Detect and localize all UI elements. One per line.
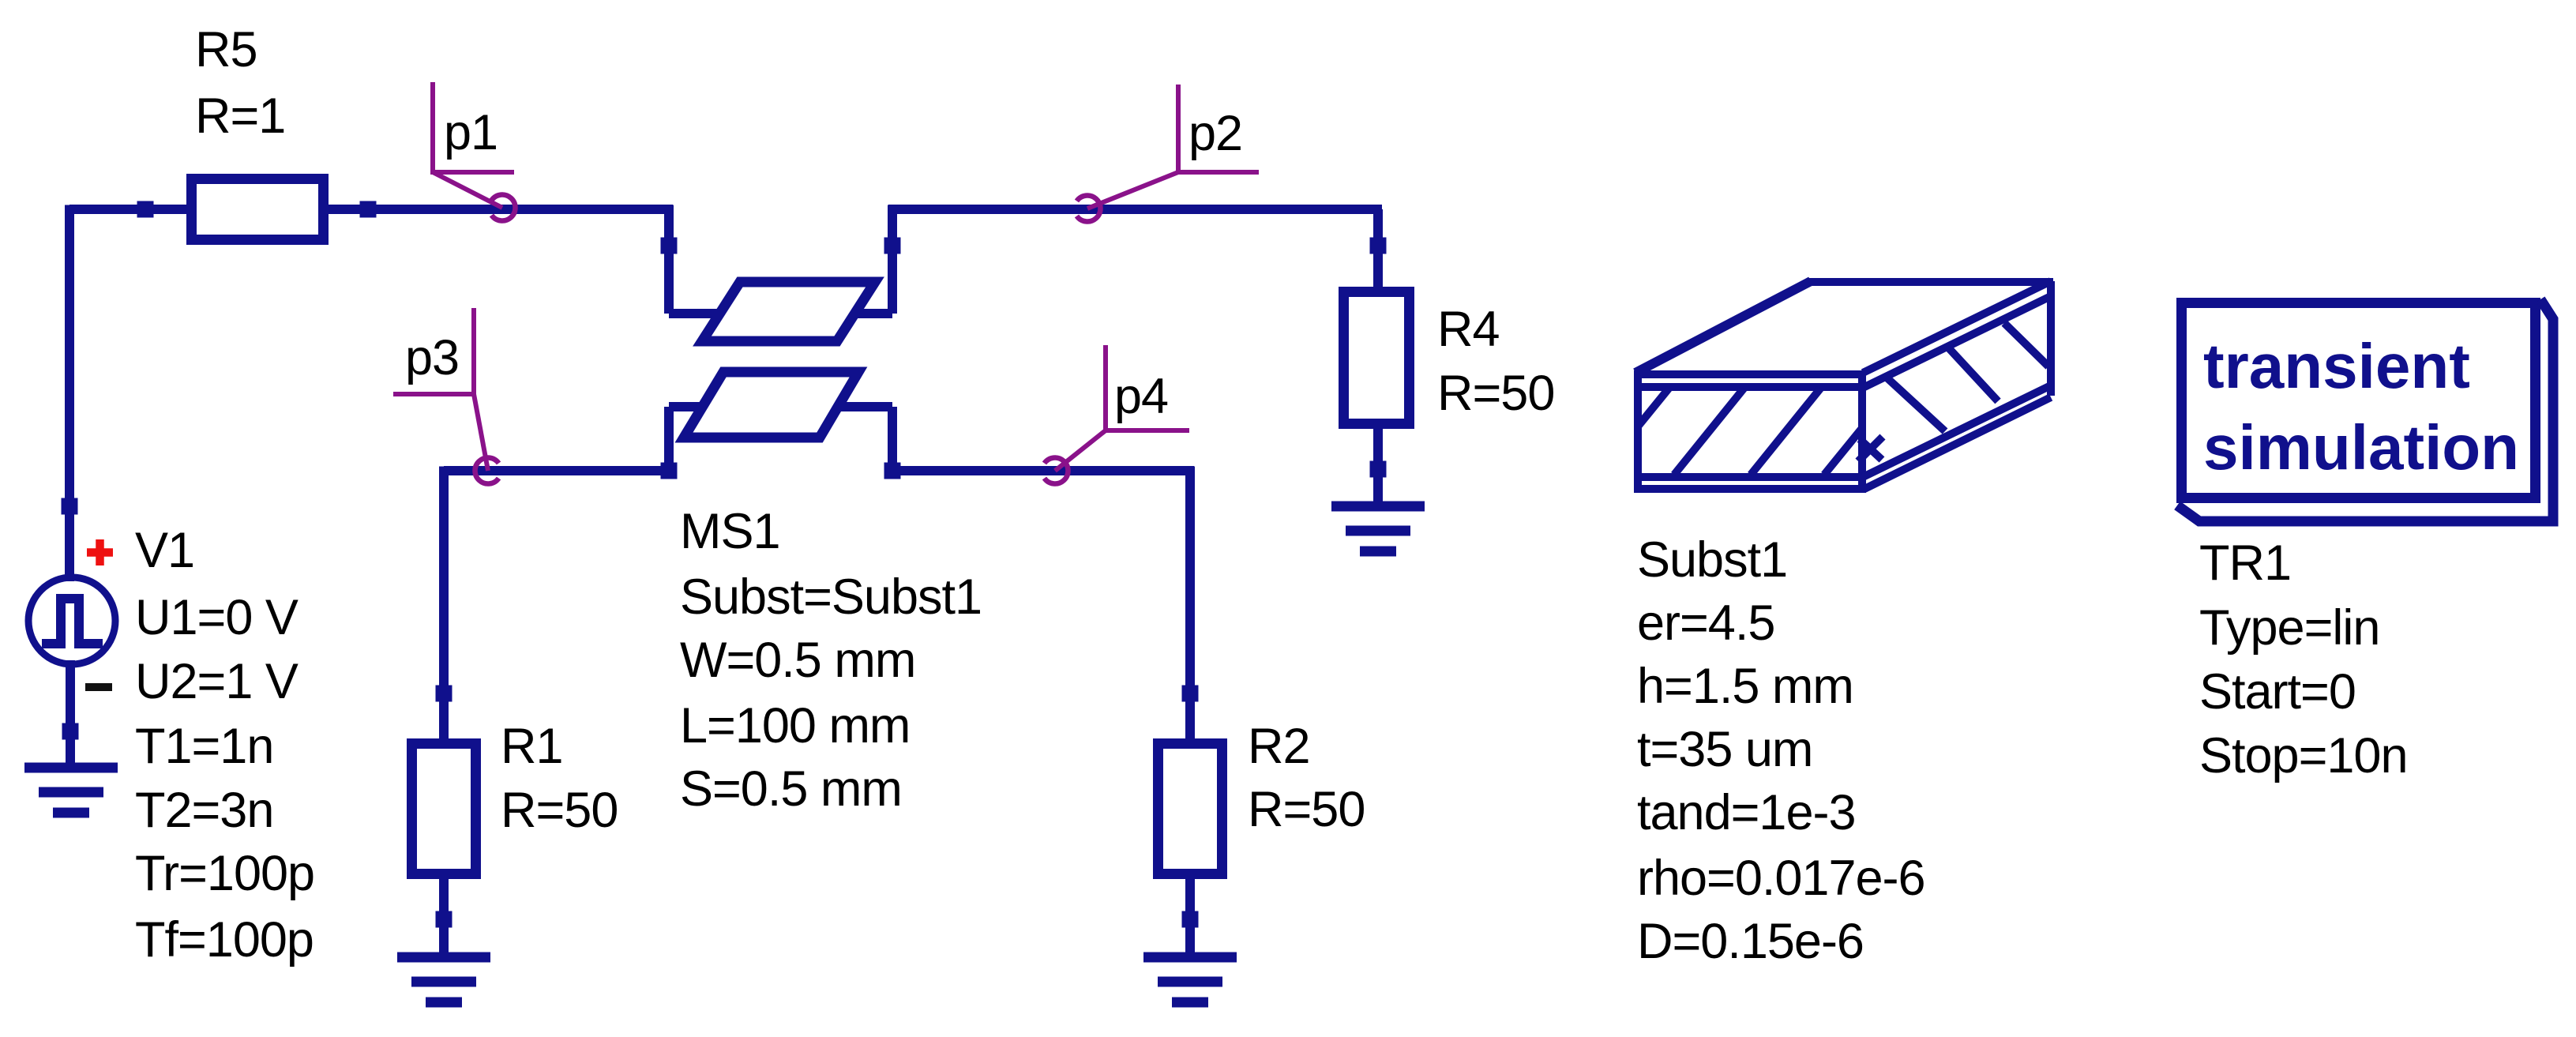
MS1 stub top-right — [854, 309, 892, 318]
node MS1 pin 4 — [884, 463, 901, 479]
svg-text:MS1: MS1 — [680, 504, 780, 559]
svg-text:W=0.5 mm: W=0.5 mm — [680, 633, 915, 688]
svg-text:p3: p3 — [405, 330, 459, 385]
svg-text:rho=0.017e-6: rho=0.017e-6 — [1637, 851, 1925, 906]
substrate left edge — [1634, 370, 1642, 493]
substrate right face top edge — [1863, 281, 2051, 373]
ground of R1 — [397, 957, 490, 1002]
svg-text:R2: R2 — [1248, 719, 1310, 774]
wire R1 bottom to ground — [439, 874, 449, 957]
node R4 pin 2 — [1370, 461, 1387, 478]
port p2 — [1076, 85, 1259, 222]
substrate Subst1 symbol — [1634, 281, 2053, 493]
svg-text:D=0.15e-6: D=0.15e-6 — [1637, 914, 1864, 969]
substrate top-left slant edge — [1635, 281, 1811, 373]
svg-text:V1: V1 — [135, 523, 194, 578]
V1 minus sign — [85, 683, 112, 691]
substrate back top edge — [1808, 278, 2053, 286]
substrate corner hatch a — [1858, 437, 1883, 461]
svg-text:L=100 mm: L=100 mm — [680, 698, 910, 753]
svg-text:R=50: R=50 — [1248, 782, 1365, 837]
port p1 — [433, 82, 515, 221]
svg-text:Tf=100p: Tf=100p — [135, 912, 314, 967]
resistor R4 — [1344, 292, 1410, 424]
transient simulation box TR1 — [2177, 299, 2553, 521]
node V1 pin - — [62, 723, 79, 740]
node R5 pin 1 — [137, 201, 154, 218]
substrate corner hatch b — [1860, 439, 1882, 460]
substrate front top copper line — [1634, 383, 1862, 391]
wire V1 top lead — [65, 506, 74, 581]
svg-text:p2: p2 — [1188, 106, 1242, 161]
svg-text:simulation: simulation — [2203, 412, 2519, 483]
wire R2 bottom to ground — [1185, 874, 1195, 957]
wire MS1 bottom-right vertical — [888, 407, 897, 471]
svg-text:Start=0: Start=0 — [2199, 664, 2356, 720]
node R4 pin 1 — [1370, 238, 1387, 254]
node R2 pin 1 — [1182, 686, 1199, 702]
substrate front bottom copper line — [1634, 473, 1862, 481]
wire MS1 bottom-left vertical — [664, 407, 674, 471]
node MS1 pin 1 — [661, 238, 678, 254]
substrate back right edge — [2047, 281, 2055, 396]
wire MS1 top-left vertical — [664, 205, 674, 314]
svg-text:tand=1e-3: tand=1e-3 — [1637, 785, 1856, 840]
node MS1 pin 3 — [661, 463, 678, 479]
svg-text:Type=lin: Type=lin — [2199, 600, 2379, 656]
svg-text:T1=1n: T1=1n — [135, 719, 273, 774]
port p4 — [1044, 345, 1189, 484]
ground of R2 — [1143, 957, 1237, 1002]
ground of V1 — [24, 768, 118, 813]
ground of R4 — [1331, 506, 1425, 551]
resistor R5 — [192, 179, 324, 240]
wire R2 vertical — [1185, 467, 1195, 745]
wire MS1 top-right vertical — [888, 205, 897, 314]
wire V1 bottom lead to ground — [66, 660, 75, 768]
node MS1 pin 2 — [884, 238, 901, 254]
svg-text:Subst1: Subst1 — [1637, 532, 1787, 588]
substrate front hatch 2 — [1674, 389, 1744, 475]
substrate front right edge — [1858, 370, 1866, 493]
substrate front top edge — [1634, 370, 1866, 378]
node R5 pin 2 — [360, 201, 377, 218]
svg-text:er=4.5: er=4.5 — [1637, 596, 1774, 651]
svg-text:TR1: TR1 — [2199, 535, 2291, 591]
svg-text:U1=0 V: U1=0 V — [135, 590, 299, 645]
svg-text:t=35 um: t=35 um — [1637, 722, 1812, 777]
wire top-left horizontal — [69, 205, 191, 214]
resistor R2 — [1158, 744, 1222, 874]
wire R1 vertical — [439, 467, 449, 745]
substrate right face copper line — [1864, 295, 2052, 387]
wire bottom left horizontal p3 to MS1 — [444, 466, 673, 475]
svg-text:R=50: R=50 — [501, 783, 618, 838]
node R1 pin 1 — [436, 686, 452, 702]
port p3 — [393, 308, 499, 484]
svg-text:R=1: R=1 — [195, 88, 285, 144]
substrate right face lower copper line — [1863, 386, 2049, 477]
substrate side hatch 2 — [1948, 348, 1998, 401]
svg-text:transient: transient — [2203, 331, 2470, 401]
node V1 pin + — [62, 498, 78, 515]
coupled microstrip MS1 line 1 — [702, 282, 875, 341]
coupled microstrip MS1 line 2 — [684, 372, 858, 438]
substrate right face bottom edge — [1864, 397, 2051, 489]
wire R4 vertical bottom to ground — [1373, 424, 1383, 506]
node R2 pin 2 — [1182, 911, 1199, 928]
wire R5 to p1 to MS1 — [324, 205, 673, 214]
wire R4 vertical top — [1373, 209, 1383, 292]
substrate front hatch 3 — [1751, 389, 1820, 475]
svg-text:Stop=10n: Stop=10n — [2199, 728, 2408, 783]
substrate front bottom edge — [1634, 485, 1866, 493]
svg-text:p4: p4 — [1114, 369, 1168, 424]
MS1 stub top-left — [669, 309, 721, 318]
svg-text:Subst=Subst1: Subst=Subst1 — [680, 569, 982, 625]
svg-text:T2=3n: T2=3n — [135, 783, 273, 838]
svg-text:h=1.5 mm: h=1.5 mm — [1637, 659, 1853, 714]
wire left vertical — [65, 205, 74, 507]
V1 plus sign — [87, 539, 113, 565]
voltage pulse source V1 — [28, 577, 115, 664]
svg-text:p1: p1 — [444, 105, 498, 160]
wire MS1 right to p2 to R4 corner — [888, 205, 1382, 214]
substrate side hatch 3 — [2004, 323, 2048, 366]
svg-text:R4: R4 — [1437, 302, 1500, 357]
wire bottom right horizontal MS1 to p4 to R2 corner — [888, 466, 1194, 475]
resistor R1 — [412, 744, 476, 874]
svg-text:U2=1 V: U2=1 V — [135, 654, 299, 709]
node R1 pin 2 — [436, 911, 452, 928]
MS1 stub bottom-left — [669, 402, 704, 411]
svg-text:Tr=100p: Tr=100p — [135, 846, 314, 901]
substrate side hatch 1 — [1887, 378, 1945, 431]
svg-text:R=50: R=50 — [1437, 366, 1554, 421]
svg-text:S=0.5 mm: S=0.5 mm — [680, 761, 902, 817]
substrate front hatch 1 — [1638, 389, 1669, 426]
svg-text:R1: R1 — [501, 719, 563, 774]
substrate front hatch 4 — [1824, 428, 1862, 475]
MS1 stub bottom-right — [838, 402, 892, 411]
svg-text:R5: R5 — [195, 22, 257, 77]
